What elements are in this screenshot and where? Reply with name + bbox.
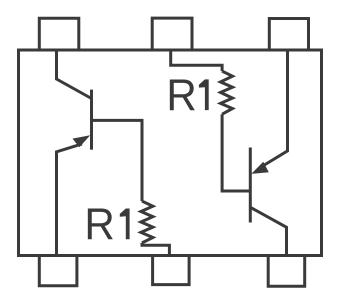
transistor Q2 base bar [249,148,252,223]
wire top-middle pin to resistor R1 (right) [171,50,222,71]
pin 6 (bottom-right) [268,256,305,287]
wire resistor R1 (right) to Q2 base [222,114,250,191]
label R1 (left resistor) [84,200,129,249]
wire Q2 collector to bottom-right pin [250,207,286,255]
wire Q1 collector to top-left pin [57,50,92,99]
svg-text:R: R [166,71,196,120]
svg-text:R: R [84,200,114,249]
pin 1 (top-left) [39,18,79,50]
transistor Q1 base bar [90,90,93,150]
wire Q2 emitter to top-right pin [264,50,288,166]
pin 5 (bottom-middle) [153,256,190,285]
label R1 (right resistor) [166,71,208,120]
wire Q1 base lead to resistor [92,120,143,201]
package outline [19,50,322,256]
Q1 emitter arrowhead (PNP) [73,135,91,147]
pin 2 (top-middle) [152,18,192,50]
resistor R1 (right) zigzag [221,71,233,114]
pin 4 (bottom-left) [39,256,77,286]
wire resistor R1 (left) to bottom-middle pin [142,243,169,256]
pin 3 (top-right) [269,19,308,51]
Q2 emitter arrowhead (PNP) [251,162,268,174]
wire Q1 emitter to bottom-left pin [57,144,83,256]
resistor R1 (left) zigzag [141,201,153,243]
